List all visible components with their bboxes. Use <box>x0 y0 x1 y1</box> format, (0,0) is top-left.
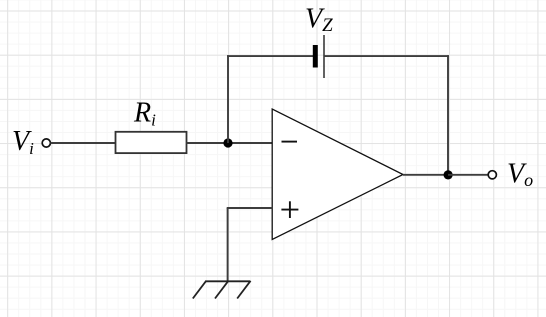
svg-text:Ri: Ri <box>133 98 156 130</box>
wire non-inverting input to ground branch <box>227 207 273 209</box>
node Vo output terminal <box>488 171 496 179</box>
svg-text:Vo: Vo <box>507 159 533 191</box>
wire feedback right vertical down to output node <box>447 55 449 175</box>
op-amp U1 inverting input minus sign <box>282 141 298 143</box>
ground symbol <box>193 281 251 299</box>
battery VZ positive plate (thin long bar) <box>323 35 325 78</box>
battery VZ negative plate (thick short bar) <box>313 45 318 68</box>
wire node B to Vo terminal <box>448 174 488 176</box>
wire node A up to feedback branch <box>227 55 229 143</box>
node A junction dot (inverting input) <box>223 138 232 147</box>
wire Vi terminal to resistor Ri <box>51 142 116 144</box>
wire op-amp output to node B <box>403 174 448 176</box>
wire ground branch vertical <box>227 208 229 281</box>
wire battery VZ to top-right corner <box>324 55 449 57</box>
wire resistor Ri to inverting input node <box>187 142 273 144</box>
op-amp U1 non-inverting input plus sign <box>281 209 298 211</box>
resistor Ri <box>116 132 187 153</box>
node Vi input terminal <box>42 139 50 147</box>
svg-text:Vi: Vi <box>12 126 34 158</box>
node B junction dot (output) <box>444 170 453 179</box>
op-amp U1 triangle <box>272 109 403 240</box>
svg-text:VZ: VZ <box>305 4 333 37</box>
wire feedback top-left horizontal to battery VZ <box>227 55 313 57</box>
